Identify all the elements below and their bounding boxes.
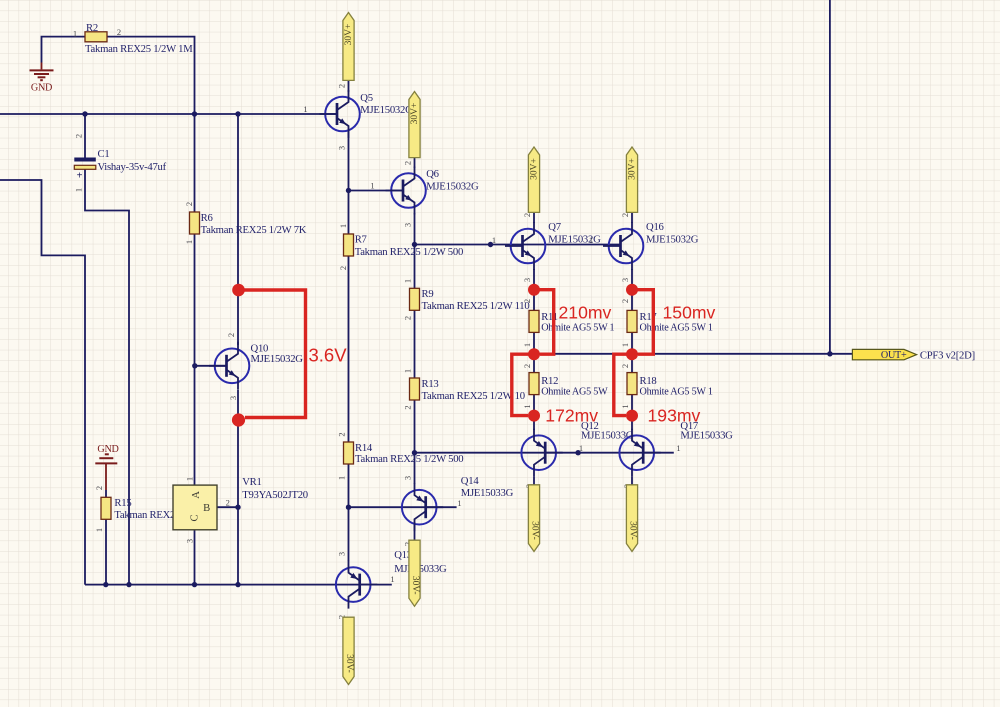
ground GND1 symbol <box>30 63 54 81</box>
junction at (414.5,244.5) <box>412 242 417 247</box>
red bracket and probe dot around R12 (172mv) <box>512 354 540 421</box>
svg-text:1: 1 <box>620 343 630 347</box>
svg-text:150mv: 150mv <box>663 303 716 323</box>
svg-text:1: 1 <box>589 235 593 245</box>
svg-text:Vishay-35v-47uf: Vishay-35v-47uf <box>98 161 167 173</box>
svg-text:Ohmite AG5 5W: Ohmite AG5 5W <box>541 387 608 398</box>
svg-text:193mv: 193mv <box>648 406 701 426</box>
svg-text:Ohmite AG5 5W 1: Ohmite AG5 5W 1 <box>640 387 713 398</box>
svg-text:2: 2 <box>620 299 630 303</box>
junction at (194.5,114) <box>192 111 197 116</box>
port OUT+ <box>852 349 916 361</box>
svg-text:3: 3 <box>228 396 238 400</box>
svg-text:172mv: 172mv <box>545 406 598 426</box>
red bracket and probe dots around R11 (210mv) <box>528 284 554 361</box>
junction at (348.5,507.2) <box>346 505 351 510</box>
svg-text:30V-: 30V- <box>410 576 420 595</box>
junction at (578.1,452.7) <box>575 450 580 455</box>
wire: base rail y=244.5 from Q6 emitter column to Q16 base <box>415 244 621 246</box>
wire: Q5 emitter column through R7 down to R14 <box>348 131 350 234</box>
transistor Q16 (NPN) <box>603 222 643 270</box>
transistor Q6 (NPN) <box>386 167 426 215</box>
red bracket and probe dot around R18 (193mv) <box>614 354 638 421</box>
junction at (238,584.6) <box>235 582 240 587</box>
svg-text:MJE15032G: MJE15032G <box>548 234 601 246</box>
svg-text:2: 2 <box>337 432 347 436</box>
junction at (414.5,452.7) <box>412 450 417 455</box>
transistor Q13 (PNP, mirrored) <box>336 561 377 609</box>
transistor Q7 (NPN) <box>505 222 545 270</box>
ground GND2 symbol (inverted) <box>95 454 117 490</box>
svg-text:Q7: Q7 <box>548 221 561 233</box>
wire: segment R9 to R13 <box>414 311 416 379</box>
svg-text:30V-: 30V- <box>344 654 354 673</box>
wire: rail y=507.2 from R14 junction through Q14 base stub <box>349 506 457 508</box>
svg-text:GND: GND <box>31 83 52 94</box>
svg-text:C1: C1 <box>98 148 110 160</box>
svg-text:Q16: Q16 <box>646 221 665 233</box>
svg-text:1: 1 <box>403 369 413 373</box>
power flag 30V- (Q13) <box>343 617 354 684</box>
resistor R13 body <box>410 378 420 400</box>
svg-text:30V+: 30V+ <box>344 24 354 46</box>
transistor Q17 (PNP, mirrored) <box>619 429 660 477</box>
svg-text:2: 2 <box>620 213 630 217</box>
wire: Q14 collector to 30V- flag <box>414 522 416 540</box>
wire: junction down to Q14 emitter <box>414 453 416 484</box>
junction at (238,507.2) <box>235 505 240 510</box>
svg-text:MJE15032G: MJE15032G <box>251 353 304 365</box>
svg-text:VR1: VR1 <box>242 476 261 488</box>
wire: column x=238 top rail down to Q10 collector <box>237 114 239 345</box>
svg-text:Q6: Q6 <box>426 168 439 180</box>
wire: Q10 base to column x=194.5 <box>195 365 227 367</box>
wire: R18 down to Q17 emitter <box>631 395 633 430</box>
svg-text:30V+: 30V+ <box>628 158 638 180</box>
resistor R12 body <box>529 373 539 395</box>
wire: Q5 to Q6 base <box>349 190 404 192</box>
wire: 30V+ flag to Q16 collector <box>631 212 633 223</box>
capacitor C1 <box>74 158 96 182</box>
svg-text:1: 1 <box>522 404 532 408</box>
svg-text:30V-: 30V- <box>628 521 638 540</box>
power flag 30V+ (Q16) <box>626 147 637 212</box>
svg-text:Takman REX25 1/2W 500: Takman REX25 1/2W 500 <box>355 453 463 465</box>
svg-text:1: 1 <box>579 443 583 453</box>
junction at (238,114) <box>235 111 240 116</box>
svg-text:3: 3 <box>620 278 630 282</box>
svg-text:3: 3 <box>337 146 347 150</box>
svg-text:2: 2 <box>403 405 413 409</box>
svg-text:1: 1 <box>370 181 374 191</box>
wire: VR1 pin3 down to bottom rail <box>194 530 196 585</box>
svg-text:MJE15032G: MJE15032G <box>646 234 699 246</box>
svg-text:2: 2 <box>403 161 413 165</box>
svg-text:T93YA502JT20: T93YA502JT20 <box>242 489 308 501</box>
svg-text:1: 1 <box>620 404 630 408</box>
wire: left staircase net from left edge down to bottom rail <box>0 180 85 585</box>
power flag 30V- (Q17) <box>626 485 637 552</box>
power flag 30V+ (Q7) <box>528 147 539 212</box>
transistor Q10 (NPN) <box>209 342 249 390</box>
resistor R15 body <box>101 497 111 519</box>
wire: 30V+ flag to Q7 collector <box>533 212 535 223</box>
svg-text:2: 2 <box>338 266 348 270</box>
wire: Q6 emitter down through R9, R13 to junction <box>414 213 416 288</box>
transistor Q5 (NPN) <box>320 90 360 138</box>
wire: segment R13 to junction y=452.7 <box>414 400 416 453</box>
svg-text:2: 2 <box>184 202 194 206</box>
svg-text:1: 1 <box>185 477 195 481</box>
wire: GND2 to R15 and R15 to bottom rail <box>105 490 107 497</box>
svg-text:C: C <box>189 514 201 521</box>
svg-text:A: A <box>190 491 202 499</box>
wire: R17 to R18 across OUT rail <box>631 332 633 372</box>
wire: Q7 emitter down to R11 <box>533 269 535 310</box>
svg-text:Takman REX25 1/2W 10: Takman REX25 1/2W 10 <box>422 390 525 402</box>
svg-text:MJE15033G: MJE15033G <box>680 430 733 442</box>
svg-text:2: 2 <box>226 333 236 337</box>
svg-text:3: 3 <box>185 539 195 543</box>
svg-text:Ohmite AG5 5W 1: Ohmite AG5 5W 1 <box>640 323 713 334</box>
resistor R6 body <box>190 212 200 234</box>
junction at (194.8,365.8) <box>192 363 197 368</box>
resistor R7 body <box>344 234 354 256</box>
wire: VR1 pin2 to column x=238 <box>217 506 238 508</box>
svg-text:3: 3 <box>337 552 347 556</box>
wire: Q10 emitter down through VR1 pin2 junction to bottom rail <box>237 390 239 585</box>
resistor R14 body <box>344 442 354 464</box>
wire: OUT rail y=353.8 to OUT+ port <box>534 353 852 355</box>
svg-text:R2: R2 <box>86 22 98 34</box>
svg-text:1: 1 <box>676 443 680 453</box>
svg-text:1: 1 <box>73 29 77 39</box>
svg-text:2: 2 <box>94 486 104 490</box>
svg-text:2: 2 <box>522 213 532 217</box>
svg-text:1: 1 <box>403 279 413 283</box>
svg-text:Takman REX25 1/2W 7K: Takman REX25 1/2W 7K <box>201 224 307 236</box>
svg-text:1: 1 <box>338 224 348 228</box>
svg-text:3: 3 <box>403 476 413 480</box>
svg-text:2: 2 <box>403 316 413 320</box>
svg-text:R6: R6 <box>201 212 214 224</box>
svg-text:Q5: Q5 <box>360 92 373 104</box>
trimmer VR1 body <box>173 485 217 530</box>
wire: top-right vertical drop to OUT rail <box>829 0 831 354</box>
svg-text:1: 1 <box>303 104 307 114</box>
svg-text:1: 1 <box>492 235 496 245</box>
svg-text:2: 2 <box>522 364 532 368</box>
svg-text:Takman REX25 1/2W 1M: Takman REX25 1/2W 1M <box>85 43 193 55</box>
svg-text:R18: R18 <box>640 375 657 387</box>
wire: Q16 emitter down to R17 <box>631 269 633 310</box>
svg-text:3: 3 <box>522 278 532 282</box>
svg-text:2: 2 <box>74 134 84 138</box>
svg-text:1: 1 <box>522 343 532 347</box>
svg-text:MJE15032G: MJE15032G <box>360 104 413 116</box>
wire: main top rail y=114 from left edge to Q5 base <box>0 113 337 115</box>
svg-text:3: 3 <box>403 223 413 227</box>
svg-text:OUT+: OUT+ <box>881 350 907 361</box>
svg-text:210mv: 210mv <box>559 303 612 323</box>
svg-text:1: 1 <box>390 574 394 584</box>
power flag 30V- (Q12) <box>528 485 539 552</box>
wire: segment R14 to Q13 emitter <box>348 464 350 561</box>
wire: C1 top plate to top rail <box>84 114 86 158</box>
red bracket and probe dots around Q10 (3.6V) <box>232 284 306 427</box>
svg-text:Q14: Q14 <box>461 475 480 487</box>
svg-text:30V-: 30V- <box>530 521 540 540</box>
resistor R17 body <box>627 310 637 332</box>
junction at (129,584.6) <box>126 582 131 587</box>
svg-text:B: B <box>203 502 210 514</box>
svg-text:R12: R12 <box>541 375 558 387</box>
wire: 30V+ flag to Q6 collector <box>414 158 416 168</box>
power flag 30V+ (Q5) <box>343 13 354 81</box>
junction at (348.5,190.5) <box>346 188 351 193</box>
resistor R2 body <box>85 32 107 42</box>
wire: R2 pin2 right then down to top rail <box>107 37 195 114</box>
wire: Q12 collector to 30V- flag <box>533 477 535 485</box>
svg-text:2: 2 <box>117 27 121 37</box>
wire: Q17 collector to 30V- flag <box>631 477 633 485</box>
resistor R11 body <box>529 310 539 332</box>
svg-text:R13: R13 <box>422 378 439 390</box>
power flag 30V+ (Q6) <box>409 92 420 158</box>
resistor R9 body <box>410 288 420 310</box>
svg-text:2: 2 <box>620 364 630 368</box>
svg-text:1: 1 <box>457 498 461 508</box>
wire: R11 to R12 across OUT rail <box>533 332 535 372</box>
transistor Q12 (PNP, mirrored) <box>521 429 562 477</box>
svg-text:30V+: 30V+ <box>410 103 420 125</box>
svg-text:2: 2 <box>337 84 347 88</box>
red bracket and probe dots around R17 (150mv) <box>626 284 653 361</box>
svg-text:1: 1 <box>184 240 194 244</box>
wire: R2 pin1 to GND1 <box>42 37 86 63</box>
svg-text:R7: R7 <box>355 233 368 245</box>
svg-text:2: 2 <box>226 497 230 507</box>
junction at (829.9,353.8) <box>827 351 832 356</box>
svg-text:R15: R15 <box>114 497 131 509</box>
junction at (194.5,584.6) <box>192 582 197 587</box>
svg-text:+: + <box>77 171 83 182</box>
power flag 30V- (Q14) <box>409 540 420 606</box>
svg-text:3.6V: 3.6V <box>309 345 348 366</box>
svg-text:2: 2 <box>522 299 532 303</box>
svg-text:1: 1 <box>94 528 104 532</box>
junction at (490.5,244.5) <box>488 242 493 247</box>
wire: R12 down to Q12 emitter <box>533 395 535 430</box>
svg-text:1: 1 <box>74 188 84 192</box>
svg-text:Takman REX25 1/2W 500: Takman REX25 1/2W 500 <box>355 246 463 258</box>
wire: segment R7 to R14 <box>348 256 350 442</box>
svg-text:MJE15033G: MJE15033G <box>461 487 514 499</box>
svg-text:CPF3 v2[2D]: CPF3 v2[2D] <box>920 349 975 361</box>
svg-text:R9: R9 <box>422 288 434 300</box>
junction at (85,114) <box>82 111 87 116</box>
wire: C1 bottom plate down, jog right, down to bottom rail <box>85 170 129 585</box>
wire: column x=194.5 from top rail through R6 down to VR1 pin1 <box>194 114 196 485</box>
wire: bottom rail y=584.6 to Q13 base and stub <box>85 584 392 586</box>
transistor Q14 (PNP, mirrored) <box>402 483 443 531</box>
junction at (105.8,584.6) <box>103 582 108 587</box>
svg-text:Takman REX25 1/2W 110: Takman REX25 1/2W 110 <box>422 300 530 312</box>
svg-text:1: 1 <box>337 476 347 480</box>
wire: lower base rail y=452.7 from R13 junction through Q12 to Q17 stub <box>415 452 674 454</box>
wire: 30V+ flag to Q5 collector <box>348 80 350 92</box>
svg-text:30V+: 30V+ <box>530 158 540 180</box>
resistor R18 body <box>627 373 637 395</box>
svg-text:MJE15032G: MJE15032G <box>426 181 479 193</box>
